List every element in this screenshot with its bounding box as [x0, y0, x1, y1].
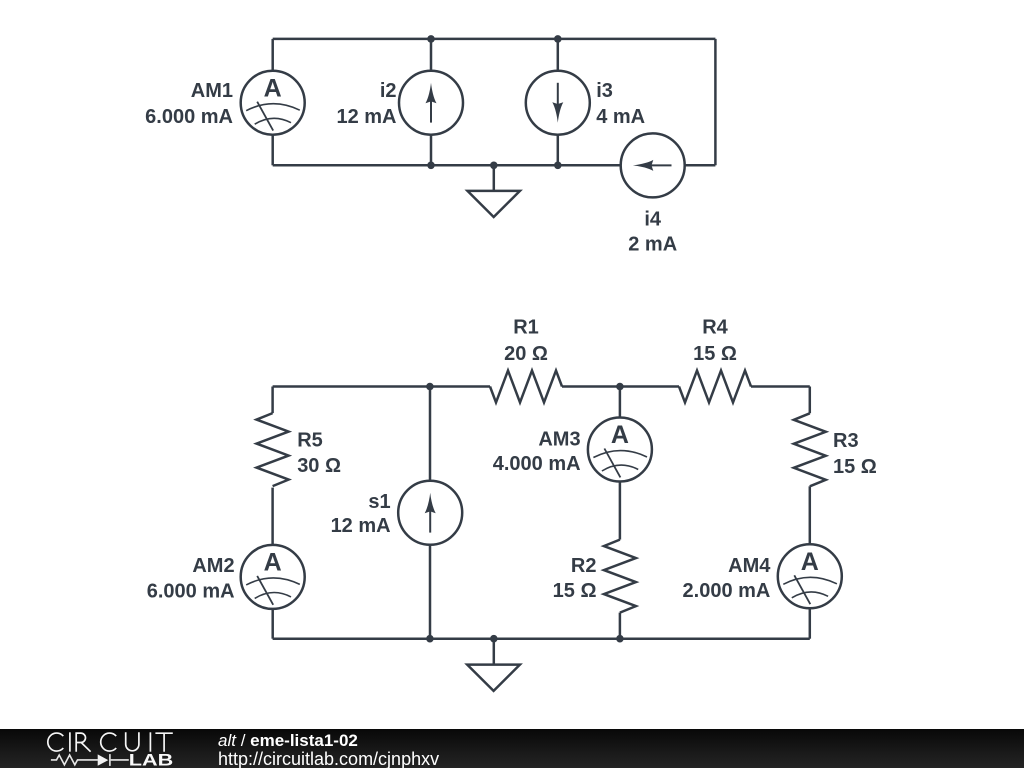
wire AM1 top lead [271, 39, 274, 71]
wire i2 bottom lead [430, 135, 433, 166]
svg-text:R3: R3 [833, 430, 859, 452]
svg-text:R1: R1 [513, 316, 539, 338]
label R4 value 15 ohm [693, 316, 737, 365]
node ground junction upper [490, 162, 498, 170]
svg-text:s1: s1 [368, 491, 390, 513]
footer caption [218, 733, 358, 748]
label AM3 [493, 429, 581, 475]
wire AM3 to R2 [619, 482, 622, 540]
node bottom of i2 [427, 162, 435, 170]
current source i2 [399, 71, 463, 135]
node ground junction lower [490, 635, 498, 643]
node R1 R4 AM3 junction [616, 383, 624, 391]
wire s1 bottom lead [429, 545, 432, 639]
label i4 [628, 209, 677, 256]
node bottom of s1 [426, 635, 434, 643]
svg-text:R4: R4 [702, 316, 728, 338]
svg-text:A: A [801, 548, 819, 576]
ammeter AM2 [241, 545, 305, 609]
label AM2 [147, 555, 235, 602]
label R1 value 20 ohm [504, 316, 548, 365]
node top of s1 [426, 383, 434, 391]
svg-text:30 Ω: 30 Ω [297, 455, 341, 477]
resistor R2 [604, 540, 636, 613]
wire left rail upper segment [271, 387, 274, 414]
wire R5 to AM2 [271, 488, 274, 545]
ammeter AM3 [588, 418, 652, 482]
ground lower [467, 639, 520, 691]
wire AM3 top lead [619, 387, 622, 418]
svg-text:A: A [611, 421, 629, 449]
CircuitLab logo [0, 729, 190, 768]
svg-text:AM4: AM4 [728, 555, 771, 577]
svg-text:15 Ω: 15 Ω [693, 343, 737, 365]
node bottom of R2 [616, 635, 624, 643]
node top of i2 [427, 35, 435, 43]
svg-text:i4: i4 [644, 209, 662, 231]
svg-text:15 Ω: 15 Ω [833, 456, 877, 478]
current source i3 [526, 71, 590, 135]
current source s1 [398, 481, 462, 545]
svg-text:2 mA: 2 mA [628, 234, 677, 256]
node top of i3 [554, 35, 562, 43]
svg-text:4.000 mA: 4.000 mA [493, 453, 581, 475]
resistor R1 [490, 371, 562, 403]
wire R3 to AM4 [809, 486, 812, 544]
wire top rail of lower circuit left segment [273, 385, 490, 388]
wire i3 bottom lead [557, 135, 560, 166]
wire bottom rail of lower circuit [273, 637, 810, 640]
svg-text:i3: i3 [596, 80, 613, 102]
wire AM1 bottom lead [271, 135, 274, 166]
svg-text:A: A [264, 74, 282, 102]
wire between R1 and R4 [562, 385, 679, 388]
label s1 [331, 491, 391, 537]
resistor R5 [257, 413, 289, 486]
wire right rail upper segment [809, 387, 812, 414]
wire AM4 bottom lead [809, 608, 812, 638]
svg-text:6.000 mA: 6.000 mA [147, 580, 235, 602]
svg-text:A: A [264, 549, 282, 577]
resistor R3 [794, 413, 826, 486]
label AM1 [145, 80, 233, 128]
wire s1 top lead [429, 387, 432, 481]
wire i3 top lead [557, 39, 560, 71]
svg-text:15 Ω: 15 Ω [553, 580, 597, 602]
svg-text:AM1: AM1 [191, 80, 233, 102]
label R3 value 15 ohm [833, 430, 877, 478]
ground upper [468, 165, 520, 217]
wire top rail of upper circuit [273, 38, 716, 41]
wire bottom rail of upper circuit [273, 164, 621, 167]
label R2 value 15 ohm [553, 555, 597, 602]
node bottom of i3 [554, 162, 562, 170]
label i3 [596, 80, 645, 128]
svg-text:i2: i2 [380, 80, 397, 102]
label AM4 [683, 555, 772, 602]
ammeter AM1 [241, 71, 305, 135]
svg-text:R5: R5 [297, 429, 323, 451]
wire AM2 bottom lead [271, 609, 274, 639]
wire R2 bottom lead [619, 613, 622, 639]
wire i4 right lead [685, 164, 716, 167]
wire right rail of upper circuit [714, 39, 717, 165]
wire R4 to right rail corner [751, 385, 810, 388]
current source i4 [621, 133, 685, 197]
svg-text:12 mA: 12 mA [336, 106, 396, 128]
label R5 value 30 ohm [297, 429, 341, 477]
svg-text:LAB: LAB [129, 751, 174, 768]
footer bar [0, 729, 1024, 768]
ammeter AM4 [778, 544, 842, 608]
svg-text:AM2: AM2 [192, 555, 234, 577]
svg-text:2.000 mA: 2.000 mA [683, 580, 771, 602]
svg-text:4 mA: 4 mA [596, 106, 645, 128]
svg-text:20 Ω: 20 Ω [504, 343, 548, 365]
svg-text:12 mA: 12 mA [331, 515, 391, 537]
svg-text:6.000 mA: 6.000 mA [145, 106, 233, 128]
label i2 [336, 80, 396, 128]
wire i2 top lead [430, 39, 433, 71]
resistor R4 [679, 371, 751, 403]
svg-text:R2: R2 [571, 555, 597, 577]
svg-text:AM3: AM3 [538, 429, 580, 451]
